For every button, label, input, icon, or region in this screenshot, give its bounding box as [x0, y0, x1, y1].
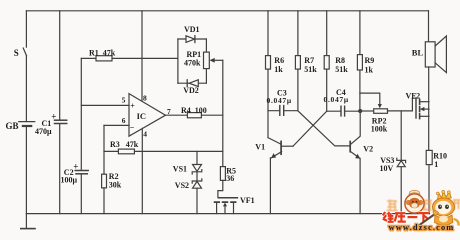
- wire VS1-VS2: [196, 172, 198, 181]
- wire V2 collector: [351, 111, 360, 144]
- wire RP1 loop bottom: [178, 82, 207, 84]
- mascot: [433, 190, 459, 228]
- svg-text:R6: R6: [274, 56, 284, 65]
- svg-text:www.dzsc.com: www.dzsc.com: [389, 223, 455, 232]
- resistor R2: [102, 174, 107, 188]
- diode VD1: [186, 36, 195, 43]
- svg-text:4: 4: [143, 130, 147, 139]
- svg-text:51k: 51k: [304, 65, 317, 74]
- wire RP2 to VF2 gate: [388, 98, 416, 111]
- svg-text:10V: 10V: [380, 164, 394, 173]
- svg-text:1: 1: [434, 160, 438, 169]
- svg-text:R9: R9: [365, 56, 375, 65]
- mosfet VF1: [218, 197, 237, 199]
- svg-text:+: +: [51, 112, 56, 122]
- wire battery column lower: [25, 127, 27, 214]
- svg-text:R8: R8: [335, 56, 345, 65]
- svg-text:470μ: 470μ: [35, 127, 52, 136]
- faint glyphs: [387, 200, 460, 211]
- wire R2 to ground: [103, 188, 105, 214]
- svg-text:7: 7: [167, 107, 171, 116]
- zener VS3: [397, 158, 406, 162]
- svg-text:100μ: 100μ: [61, 176, 78, 185]
- wire op-amp pin6: [104, 124, 129, 126]
- capacitor C1: [55, 119, 67, 121]
- wire V2 emitter to ground: [359, 158, 361, 213]
- svg-text:VS2: VS2: [175, 181, 189, 190]
- wire V1 emitter to ground: [269, 158, 271, 214]
- svg-text:30k: 30k: [109, 180, 122, 189]
- svg-text:+: +: [73, 162, 78, 172]
- red watermark text: [383, 212, 429, 222]
- wire RP1 loop right: [205, 39, 207, 83]
- RP2 wiper: [360, 93, 380, 104]
- wire R8 column: [326, 11, 328, 56]
- wire C2 column lower: [80, 174, 82, 213]
- wire R7 to C3: [297, 69, 299, 111]
- battery GB: [19, 121, 35, 123]
- svg-text:8: 8: [143, 93, 147, 102]
- wire RP1 loop top: [178, 38, 207, 40]
- wire zener chain column: [196, 151, 198, 164]
- svg-text:51k: 51k: [335, 65, 348, 74]
- svg-text:IC: IC: [137, 111, 146, 121]
- wire VS2 to ground: [196, 188, 198, 213]
- svg-text:1k: 1k: [274, 65, 283, 74]
- wire C1 column lower: [59, 124, 61, 213]
- wire R9 to node: [359, 70, 361, 111]
- potentiometer RP2: [374, 109, 388, 114]
- resistor R8: [324, 56, 329, 70]
- op-amp IC: [129, 94, 166, 137]
- svg-text:S: S: [14, 48, 19, 58]
- wire op-amp pin5: [81, 104, 129, 106]
- svg-text:R7: R7: [304, 56, 314, 65]
- wire R3 node: [104, 150, 223, 152]
- wire cross C4 to V1 base: [293, 111, 327, 146]
- wire cross C3 to V2 base: [298, 111, 350, 146]
- zener VS1: [193, 165, 202, 172]
- wire R1: [81, 57, 178, 59]
- resistor R10: [426, 150, 432, 164]
- wire battery column upper: [25, 11, 27, 47]
- wire R10 to ground: [428, 165, 430, 214]
- RP1 wiper arrow: [214, 59, 223, 61]
- svg-text:R3 47k: R3 47k: [110, 140, 139, 149]
- wire op-amp output: [166, 114, 223, 116]
- wire battery column mid: [25, 56, 27, 122]
- zener VS2: [192, 179, 202, 183]
- svg-text:R4 100: R4 100: [181, 106, 207, 115]
- wire R6 column: [267, 11, 269, 56]
- wire V1 base: [282, 145, 293, 147]
- resistor R6: [266, 56, 271, 70]
- resistor R3: [118, 149, 134, 154]
- svg-text:V1: V1: [255, 142, 265, 151]
- wire wiper column: [222, 60, 224, 166]
- capacitor C4: [327, 110, 361, 112]
- svg-text:−: −: [130, 123, 135, 132]
- svg-text:R1 47k: R1 47k: [89, 48, 116, 57]
- wire VF2 drain column: [428, 67, 430, 150]
- capacitor C2: [75, 170, 88, 172]
- svg-text:100k: 100k: [371, 124, 388, 133]
- svg-text:0.047μ: 0.047μ: [324, 95, 349, 104]
- transistor V1: [268, 138, 281, 144]
- resistor R4: [187, 113, 201, 118]
- svg-text:V2: V2: [363, 145, 373, 154]
- potentiometer RP1: [204, 52, 210, 69]
- wire R7 column: [297, 11, 299, 56]
- node junction dot: [358, 109, 362, 113]
- ground: [25, 214, 27, 229]
- diode VD2: [189, 80, 198, 87]
- svg-text:VF2: VF2: [406, 91, 421, 100]
- wire C1 column upper: [59, 11, 61, 120]
- svg-text:1k: 1k: [365, 65, 374, 74]
- wire RP1 loop left: [177, 39, 179, 83]
- svg-text:GB: GB: [6, 121, 19, 131]
- resistor R7: [295, 56, 300, 70]
- wire R5 to VF1 gate: [218, 180, 223, 197]
- wire top supply bus: [26, 10, 428, 12]
- wire op-amp pin4 to ground: [141, 128, 143, 213]
- wire RP2 left: [360, 110, 374, 112]
- svg-text:VF1: VF1: [240, 196, 255, 205]
- wire bottom ground bus: [26, 213, 429, 215]
- wire R9 column: [359, 11, 361, 55]
- svg-text:6: 6: [122, 116, 126, 125]
- svg-text:36: 36: [226, 174, 234, 183]
- resistor R5: [220, 167, 225, 181]
- transistor V2: [349, 142, 351, 152]
- wire VS3 to ground: [400, 167, 402, 214]
- mascot arm stick: [415, 213, 438, 229]
- wire VS3 column: [400, 111, 402, 160]
- wire R6 to V1 collector: [267, 69, 269, 138]
- svg-text:470k: 470k: [184, 59, 201, 68]
- wire R1 node column: [80, 58, 82, 170]
- resistor R1: [96, 56, 112, 61]
- switch S: [23, 48, 26, 56]
- svg-text:5: 5: [122, 95, 126, 104]
- logo circle: [405, 190, 424, 213]
- svg-text:BL: BL: [412, 48, 424, 58]
- wire speaker column: [428, 11, 430, 42]
- mosfet VF2 channel: [419, 99, 421, 118]
- wire R8 to C4: [326, 69, 328, 111]
- wire inverting node column: [103, 125, 105, 174]
- svg-text:VS1: VS1: [173, 165, 187, 174]
- svg-text:0.047μ: 0.047μ: [267, 96, 292, 105]
- capacitor C3: [268, 110, 298, 112]
- resistor R9: [357, 55, 362, 70]
- svg-text:VD2: VD2: [183, 86, 199, 95]
- svg-text:VD1: VD1: [184, 25, 200, 34]
- svg-text:+: +: [130, 102, 135, 111]
- mosfet VF2 gate bar: [415, 98, 417, 118]
- watermark: [383, 190, 460, 232]
- wire op-amp pin8 supply: [141, 11, 143, 101]
- speaker BL: [425, 42, 435, 67]
